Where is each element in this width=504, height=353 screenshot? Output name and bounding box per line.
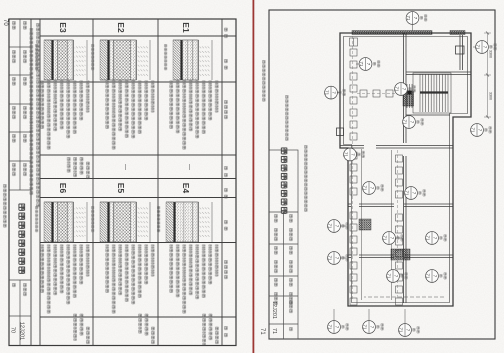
table grid	[31, 19, 236, 346]
row separators (upright horizontal)	[221, 19, 223, 346]
stair	[407, 73, 451, 113]
svg-text:71: 71	[325, 90, 330, 95]
svg-text:71: 71	[426, 236, 431, 241]
squares column x=90	[360, 90, 393, 97]
red spine line	[252, 0, 254, 353]
svg-text:70: 70	[2, 19, 8, 26]
svg-text:71: 71	[363, 186, 368, 191]
svg-text:E1: E1	[181, 22, 191, 33]
svg-text:70: 70	[10, 327, 16, 333]
svg-text:71: 71	[359, 62, 364, 67]
top dimension line	[484, 32, 491, 119]
svg-text:71: 71	[399, 328, 404, 333]
svg-text:71: 71	[271, 328, 277, 334]
column separators (upright vertical)	[40, 35, 236, 37]
title block	[9, 19, 31, 346]
svg-text:71: 71	[405, 191, 410, 196]
svg-text:71: 71	[403, 120, 408, 125]
notes row	[36, 23, 40, 207]
page frame	[269, 10, 495, 339]
construction text lists	[40, 81, 218, 314]
svg-text:71: 71	[259, 328, 265, 335]
E labels	[58, 22, 191, 193]
svg-text:71: 71	[426, 274, 431, 279]
svg-text:12J201: 12J201	[19, 322, 25, 340]
svg-text:71: 71	[328, 325, 333, 330]
header labels	[224, 28, 228, 338]
title block 2	[269, 147, 298, 339]
squares row along y=148	[350, 38, 358, 305]
svg-text:—: —	[186, 164, 192, 170]
svg-text:12J201: 12J201	[271, 301, 277, 319]
sketches group 1 : placeholder boxes replaced below	[35, 40, 212, 242]
svg-text:71: 71	[328, 224, 333, 229]
svg-text:E4: E4	[181, 183, 191, 194]
svg-text:3300: 3300	[489, 92, 493, 100]
svg-text:—: —	[122, 164, 128, 170]
squares row along y=103	[396, 155, 403, 305]
svg-text:71: 71	[476, 45, 481, 50]
dashed walkway lines	[353, 36, 401, 300]
svg-text:71: 71	[328, 256, 333, 261]
svg-text:E5: E5	[116, 183, 126, 194]
slope dashed line near right wall	[364, 296, 444, 298]
svg-text:E2: E2	[116, 22, 126, 33]
svg-text:E3: E3	[58, 22, 68, 33]
svg-text:71: 71	[406, 16, 411, 21]
svg-text:3300: 3300	[489, 50, 493, 58]
beizhu	[67, 157, 219, 345]
note line above title block	[304, 145, 308, 212]
svg-text:71: 71	[383, 236, 388, 241]
svg-text:71: 71	[471, 128, 476, 133]
svg-text:E6: E6	[58, 183, 68, 194]
dense hatch cut symbols	[391, 249, 410, 260]
svg-text:71: 71	[387, 274, 392, 279]
building outer walls (double)	[340, 33, 471, 306]
interior walls	[337, 33, 472, 303]
blackened wall segment on left wall	[352, 31, 432, 35]
svg-text:71: 71	[363, 325, 368, 330]
page frame	[9, 19, 236, 346]
svg-text:71: 71	[395, 87, 400, 92]
svg-text:71: 71	[344, 152, 349, 157]
detail bubbles	[325, 12, 497, 337]
